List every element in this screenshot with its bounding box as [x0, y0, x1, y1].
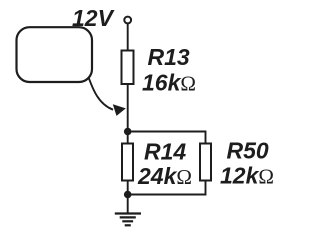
- wire bottom node to ground: [127, 195, 129, 214]
- resistor R50: [200, 144, 211, 181]
- svg-text:R50: R50: [227, 138, 269, 164]
- ground: [115, 214, 141, 226]
- callout arrow curve: [89, 78, 113, 110]
- resistor R14: [122, 144, 133, 181]
- wire node A to right branch top: [128, 132, 206, 145]
- wire from R13 bottom to node A: [127, 84, 129, 132]
- resistor R13: [122, 51, 134, 85]
- callout arrowhead: [113, 104, 126, 116]
- callout bubble: [17, 27, 93, 82]
- svg-text:24kΩ: 24kΩ: [137, 163, 192, 189]
- wire R14 bottom to bottom node: [127, 181, 129, 195]
- bottom junction dot: [124, 191, 132, 199]
- svg-text:R14: R14: [144, 139, 186, 165]
- wire R50 bottom to bottom rail: [128, 181, 206, 195]
- wire node A down to R14 top: [127, 132, 129, 145]
- svg-text:12kΩ: 12kΩ: [220, 163, 274, 189]
- svg-text:R13: R13: [148, 44, 190, 70]
- wire from 12V terminal to R13 top: [127, 23, 129, 51]
- node A junction dot: [124, 128, 132, 136]
- svg-text:16kΩ: 16kΩ: [142, 70, 196, 96]
- node 12V terminal: [124, 17, 131, 24]
